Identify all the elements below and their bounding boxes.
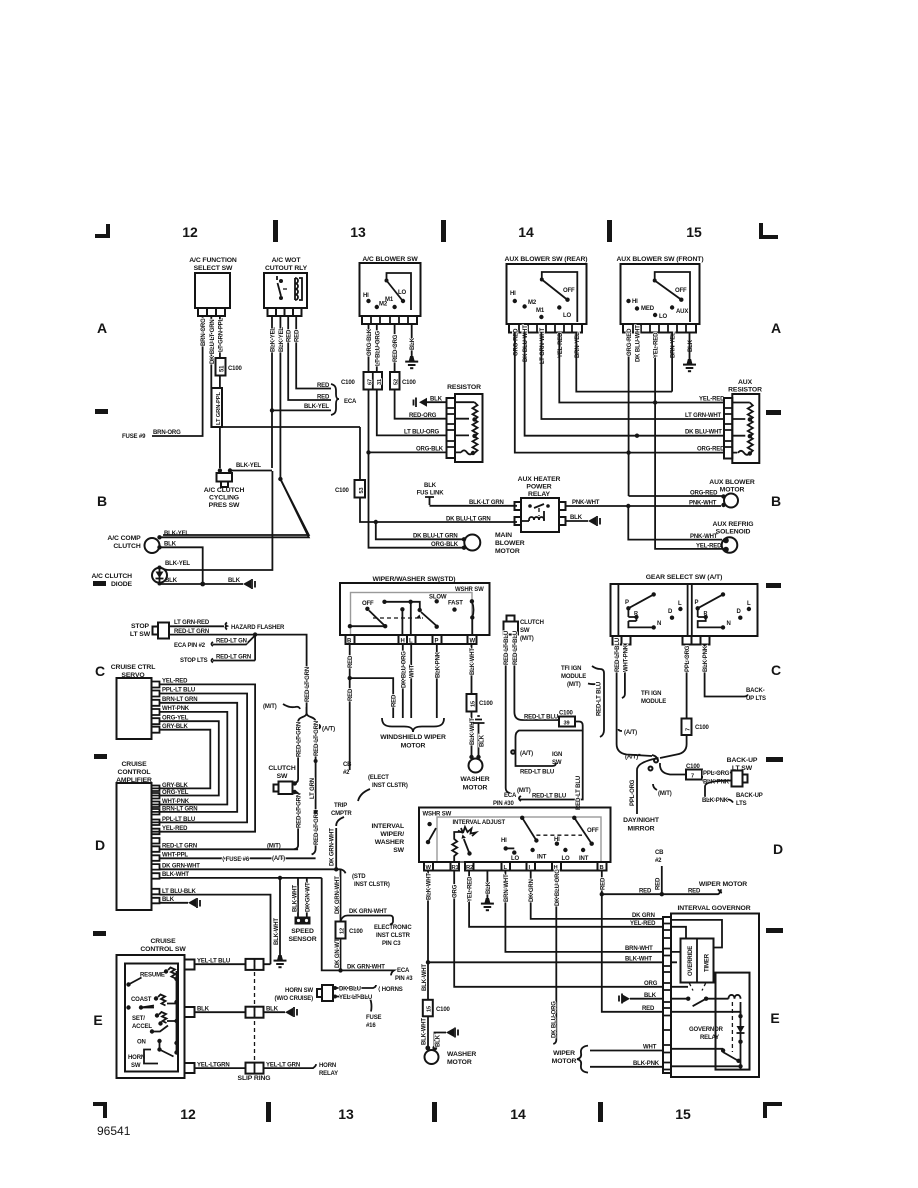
svg-text:LT GRN-WHT: LT GRN-WHT [685, 413, 722, 419]
svg-text:L: L [678, 601, 682, 607]
svg-text:MODULE: MODULE [561, 674, 586, 680]
ign switch label [552, 752, 562, 766]
svg-text:INTERVAL GOVERNOR: INTERVAL GOVERNOR [677, 905, 750, 912]
svg-text:RESISTOR: RESISTOR [447, 384, 481, 391]
svg-text:LO: LO [563, 313, 572, 319]
ground (arrow) bottom washer [435, 1028, 459, 1050]
svg-text:53: 53 [359, 488, 365, 494]
svg-text:96541: 96541 [97, 1124, 131, 1138]
svg-text:OFF: OFF [563, 288, 575, 294]
wire RED-LT BLU (ign sw / A/T branch) [511, 731, 583, 776]
svg-text:P: P [625, 600, 629, 606]
wire RED (WOT pin4 to ECA) [295, 316, 331, 389]
top tick 14/15 [607, 220, 612, 242]
svg-text:WIPER: WIPER [553, 1050, 575, 1057]
A/C function select switch [189, 257, 237, 316]
svg-text:RED: RED [392, 694, 398, 707]
connector C100 cavities 67/31 [341, 372, 383, 390]
wire ORG-BLK (blower HI to resistor/main blower) [367, 324, 373, 372]
wiper motor (bottom) brace [552, 1046, 588, 1073]
svg-text:BLK-WHT: BLK-WHT [162, 872, 189, 878]
svg-text:RELAY: RELAY [528, 491, 550, 498]
svg-text:HI: HI [501, 838, 507, 844]
svg-text:15: 15 [686, 224, 702, 240]
ground (bar style) blower switch [405, 356, 418, 369]
svg-text:YEL-LT BLU: YEL-LT BLU [197, 958, 230, 964]
wire RED-LT BLU (clutch sw left leg, M/T) [504, 631, 531, 794]
svg-text:RED: RED [600, 877, 606, 890]
svg-text:C100: C100 [402, 380, 417, 386]
svg-text:CB: CB [343, 762, 352, 768]
svg-text:BLK: BLK [165, 578, 178, 584]
svg-text:MOTOR: MOTOR [720, 487, 745, 494]
left margin dashes [95, 409, 108, 414]
svg-text:STOP LTS: STOP LTS [180, 658, 208, 664]
svg-text:CLUTCH: CLUTCH [520, 620, 544, 626]
cruise control amplifier [116, 761, 197, 910]
svg-text:YEL-LTGRN: YEL-LTGRN [197, 1062, 230, 1068]
svg-text:TFI IGN: TFI IGN [641, 691, 661, 697]
svg-text:BLK-PNK: BLK-PNK [435, 651, 441, 678]
wire YEL-RED (front sw to solenoid) [655, 333, 722, 550]
svg-text:ECA: ECA [344, 399, 357, 405]
wire BLK-WHT (amplifier bus) [160, 872, 322, 880]
svg-text:MODULE: MODULE [641, 699, 666, 705]
svg-text:ORG-BLK: ORG-BLK [416, 447, 444, 453]
svg-text:31: 31 [377, 379, 383, 385]
wire BLK-YEL (comp clutch from WOT) [160, 479, 309, 537]
svg-text:RED-ORG: RED-ORG [409, 413, 437, 419]
svg-text:DK BLU-ORG: DK BLU-ORG [551, 1001, 557, 1038]
svg-text:CLUTCH: CLUTCH [113, 543, 141, 550]
svg-text:(W/O CRUISE): (W/O CRUISE) [274, 996, 313, 1002]
svg-text:WHT: WHT [410, 664, 416, 678]
svg-text:PNK-WHT: PNK-WHT [572, 500, 600, 506]
svg-text:PPL-LT BLU: PPL-LT BLU [162, 817, 195, 823]
svg-text:(A/T): (A/T) [624, 730, 637, 736]
wire YEL-LT BLU (horn sw to fuse 16) [337, 995, 382, 1029]
svg-text:HI: HI [510, 291, 516, 297]
wire YEL-LT BLU (cruise sw to slip ring connector) [195, 958, 271, 970]
wire PNK-WHT (relay to aux blower motor / solenoid) [566, 500, 722, 508]
cruise ctrl servo [111, 664, 160, 739]
stop lamp switch [130, 623, 173, 639]
svg-text:IGN: IGN [552, 752, 562, 758]
svg-text:YEL-RED: YEL-RED [696, 544, 722, 550]
wire PNK-WHT (to solenoid) [628, 506, 722, 540]
slip ring dashed line [238, 958, 271, 1082]
svg-text:39: 39 [564, 721, 570, 727]
svg-text:CMPTR: CMPTR [331, 811, 352, 817]
svg-text:RED: RED [642, 1006, 655, 1012]
svg-text:A/C CLUTCH: A/C CLUTCH [91, 573, 132, 580]
svg-text:#16: #16 [366, 1023, 376, 1029]
svg-text:YEL-RED: YEL-RED [630, 921, 656, 927]
svg-text:H: H [401, 639, 405, 645]
ground (arrow style) + wire BLK to resistor [414, 397, 447, 408]
svg-text:E: E [93, 1012, 102, 1028]
svg-text:C100: C100 [349, 929, 364, 935]
wire LT BLU-ORG (C100-31 to resistor) [377, 390, 447, 436]
wire LT GRN-RED (to hazard flasher) [173, 620, 285, 631]
wire RED-LT GRN (stop sw to cruise circuit) [173, 629, 311, 713]
svg-text:CRUISE: CRUISE [121, 761, 147, 768]
svg-text:TIMER: TIMER [705, 953, 711, 972]
svg-text:(M/T): (M/T) [567, 682, 581, 688]
TFI ign module label (right) [641, 691, 666, 705]
svg-text:DK GRN-WHT: DK GRN-WHT [335, 876, 341, 914]
corner mark top-right [759, 223, 778, 239]
A/C blower switch [360, 256, 421, 324]
svg-text:B: B [771, 493, 781, 509]
svg-text:DK GN-WT: DK GN-WT [335, 938, 341, 968]
wire BLK (amplifier to ground arrow) [160, 897, 201, 908]
svg-text:DK GRN-WHT: DK GRN-WHT [330, 828, 336, 866]
svg-text:RED-LT GRN: RED-LT GRN [162, 844, 197, 850]
connector C100 cavity 15 (bottom washer) [423, 1000, 451, 1017]
svg-text:OFF: OFF [675, 288, 687, 294]
svg-text:7: 7 [685, 728, 691, 731]
wiper motor arrow (RED feed) [718, 889, 722, 893]
svg-text:GOVERNOR: GOVERNOR [689, 1027, 724, 1033]
svg-text:WHT-PPL: WHT-PPL [162, 853, 188, 859]
svg-text:13: 13 [350, 224, 366, 240]
bottom tick 13/14 [432, 1102, 437, 1122]
wire RED (wiper B to motor / CB2) [348, 644, 398, 770]
svg-text:B: B [600, 865, 604, 871]
svg-text:GRY-BLK: GRY-BLK [162, 724, 189, 730]
svg-text:RED-LT GRN: RED-LT GRN [297, 793, 303, 828]
svg-text:LT BLU-BLK: LT BLU-BLK [162, 889, 197, 895]
wire BLK-WHT (wiper W to washer motor) [470, 644, 476, 756]
wire BLK-PNK (back-up sw to back-up lts) [702, 781, 763, 808]
svg-text:BLK: BLK [436, 1034, 442, 1047]
top tick 12/13 [273, 220, 278, 242]
horn switch (w/o cruise) [274, 985, 337, 1002]
wire YEL-LT GRN (cruise sw to horn relay) [195, 1062, 317, 1073]
svg-text:15: 15 [675, 1106, 691, 1122]
fusible link BLK [417, 483, 517, 506]
svg-text:RED: RED [317, 383, 330, 389]
svg-text:RESUME: RESUME [140, 973, 165, 979]
svg-text:MOTOR: MOTOR [401, 743, 426, 750]
wire BLK-WHT (interval W to governor and washer C100) [422, 871, 663, 1000]
bottom tick 14/15 [598, 1102, 603, 1122]
svg-text:C100: C100 [479, 701, 494, 707]
svg-text:ECA: ECA [504, 793, 517, 799]
svg-text:P: P [695, 600, 699, 606]
wire RED (interval B to CB2 and wiper motor and governor) [600, 871, 721, 1013]
svg-text:HORN: HORN [128, 1055, 145, 1061]
ECA pin #30 label [493, 793, 521, 807]
svg-text:RED-LT BLU: RED-LT BLU [576, 776, 582, 810]
svg-text:WASHER: WASHER [447, 1051, 476, 1058]
svg-text:BLK: BLK [570, 515, 583, 521]
back-up light switch [702, 757, 758, 787]
svg-text:SW: SW [277, 773, 288, 780]
svg-text:BLK: BLK [162, 897, 175, 903]
connector C100 cavity 52 [390, 372, 417, 390]
svg-text:MOTOR: MOTOR [463, 785, 488, 792]
svg-text:RED: RED [348, 688, 354, 701]
svg-text:N: N [657, 621, 661, 627]
wire BLK (cruise sw to slip ring to ground) [195, 1006, 298, 1017]
connector C100 cavity 12 [336, 922, 364, 939]
svg-text:BLK: BLK [197, 1006, 210, 1012]
svg-text:P: P [435, 639, 439, 645]
svg-text:M1: M1 [385, 297, 394, 303]
svg-text:RED-LT BLU: RED-LT BLU [532, 794, 566, 800]
ground (bar style) washer motor [473, 716, 486, 756]
svg-text:PIN #30: PIN #30 [493, 801, 514, 807]
svg-text:E: E [770, 1010, 779, 1026]
wire DK BLU-LT GRN (drop to C100-53 and blower feed) [359, 427, 361, 480]
svg-text:RED: RED [348, 655, 354, 668]
ECA brace [331, 384, 357, 415]
svg-text:BLK-WHT: BLK-WHT [470, 718, 476, 745]
svg-text:GEAR SELECT SW (A/T): GEAR SELECT SW (A/T) [646, 574, 723, 581]
svg-text:SW: SW [393, 847, 404, 854]
svg-text:BLK: BLK [424, 483, 437, 489]
connector C100 cavity 39 [559, 711, 575, 727]
wire (bus to ECA pin 3) [322, 878, 394, 976]
svg-text:A/C BLOWER SW: A/C BLOWER SW [362, 256, 418, 263]
interval governor [663, 905, 759, 1077]
svg-text:WHT-PNK: WHT-PNK [623, 644, 629, 672]
svg-text:L: L [747, 601, 751, 607]
svg-text:BLK-WHT: BLK-WHT [625, 957, 652, 963]
svg-text:FUS LINK: FUS LINK [417, 491, 445, 497]
wire RED-LT GRN (amplifier to M/T clutch branch) [160, 844, 299, 850]
svg-text:ORG-BLK: ORG-BLK [367, 328, 373, 356]
svg-text:C100: C100 [335, 488, 350, 494]
svg-text:LT GRN-PPL: LT GRN-PPL [216, 392, 222, 425]
wire DK BLU-WHT (rear/front to aux resistor) [525, 333, 724, 438]
svg-text:WHT-PNK: WHT-PNK [162, 706, 190, 712]
svg-text:POWER: POWER [526, 484, 551, 491]
speed sensor [288, 878, 316, 943]
A/C comp clutch [107, 535, 161, 553]
rotated wire labels aux front [627, 325, 694, 362]
svg-text:(A/T)⌜: (A/T)⌜ [625, 754, 641, 761]
svg-text:SPEED: SPEED [291, 928, 314, 935]
svg-text:WIPER MOTOR: WIPER MOTOR [699, 881, 747, 888]
wire RED-ORG (C100-52 to resistor) [395, 390, 447, 420]
wire RED-LT BLU (clutch sw right leg to C100-39) [513, 631, 559, 721]
svg-text:RED-LT BLU: RED-LT BLU [504, 631, 510, 665]
svg-text:BLK-YEL: BLK-YEL [271, 327, 277, 352]
svg-text:INT: INT [537, 855, 547, 861]
wire WHT (wiper L) [410, 644, 416, 718]
svg-text:AUX HEATER: AUX HEATER [518, 476, 561, 483]
svg-text:MIRROR: MIRROR [628, 826, 655, 833]
svg-text:(M/T): (M/T) [520, 636, 534, 642]
svg-text:FAST: FAST [448, 601, 463, 607]
svg-text:AUX REFRIG: AUX REFRIG [713, 521, 754, 528]
svg-text:LTS: LTS [736, 801, 747, 807]
svg-text:CLUTCH: CLUTCH [268, 765, 296, 772]
svg-text:WHT: WHT [643, 1045, 657, 1051]
svg-text:SW: SW [131, 1063, 141, 1069]
svg-text:BLK-WHT: BLK-WHT [470, 648, 476, 675]
wire ORG (interval R1 to governor) [453, 871, 663, 988]
svg-text:DK GRN-WHT: DK GRN-WHT [162, 864, 200, 870]
svg-text:AUX BLOWER: AUX BLOWER [709, 479, 755, 486]
svg-text:WIPER/WASHER SW(STD): WIPER/WASHER SW(STD) [373, 576, 456, 583]
wire ORG-RED (front sw to aux blower motor) [629, 333, 722, 497]
svg-text:WINDSHIELD WIPER: WINDSHIELD WIPER [380, 734, 446, 741]
svg-text:ORG: ORG [644, 981, 658, 987]
day/night mirror [623, 817, 660, 833]
svg-text:BLK-WHT: BLK-WHT [422, 1018, 428, 1045]
svg-text:R1: R1 [452, 865, 460, 871]
svg-text:DK BLU-LT GRN: DK BLU-LT GRN [446, 517, 491, 523]
wire BLK (blower to ground) [410, 324, 416, 357]
svg-text:ORG-RED: ORG-RED [627, 328, 633, 356]
top tick 13/14 [441, 220, 446, 242]
svg-text:LT GRN-PPL: LT GRN-PPL [219, 317, 225, 352]
corner mark bottom-left [93, 1102, 107, 1118]
svg-text:C100: C100 [228, 366, 243, 372]
svg-text:LT GRN-RED: LT GRN-RED [174, 620, 210, 626]
wire DK GRN-WHT (riser through C100-12 to ECA pin3) [335, 869, 343, 972]
svg-text:STOP: STOP [131, 623, 150, 630]
wire DK GRN (interval I to governor) [529, 871, 663, 920]
svg-text:DIODE: DIODE [111, 581, 133, 588]
governor internal wiring [671, 920, 750, 1070]
svg-text:(A/T): (A/T) [272, 856, 285, 862]
svg-text:ORG-RED: ORG-RED [690, 491, 718, 497]
svg-text:SET/: SET/ [132, 1016, 145, 1022]
svg-text:RED: RED [656, 877, 662, 890]
svg-text:LT GRN: LT GRN [310, 778, 316, 799]
wire BLK-PNK (wiper P) [435, 644, 441, 718]
svg-text:LT BLU-ORG: LT BLU-ORG [404, 430, 440, 436]
svg-text:N: N [727, 621, 731, 627]
svg-text:RED-LT GRN: RED-LT GRN [216, 655, 251, 661]
svg-text:RED-LT BLU: RED-LT BLU [597, 682, 603, 716]
clutch switch (cruise, M/T) [268, 765, 298, 794]
svg-text:DK GN-WT: DK GN-WT [306, 882, 312, 912]
svg-text:OFF: OFF [362, 601, 374, 607]
svg-text:HI: HI [363, 293, 369, 299]
svg-text:A: A [97, 320, 107, 336]
svg-text:R: R [634, 611, 638, 617]
svg-text:SW: SW [520, 628, 530, 634]
svg-text:67: 67 [368, 379, 374, 385]
servo loop wires to amplifier [152, 679, 255, 832]
svg-text:BLK-WHT: BLK-WHT [274, 918, 280, 945]
svg-text:R2: R2 [466, 865, 473, 871]
svg-text:SENSOR: SENSOR [288, 936, 316, 943]
svg-text:BLK: BLK [644, 993, 657, 999]
svg-text:PPL-LT BLU: PPL-LT BLU [162, 688, 195, 694]
wire PPL-ORG (gear select through C100-7) [660, 645, 691, 759]
svg-text:ORG-YEL: ORG-YEL [162, 790, 189, 796]
svg-text:BRN-WHT: BRN-WHT [625, 946, 653, 952]
connector C100 cavity 51 [216, 358, 243, 376]
svg-text:BLK: BLK [410, 337, 416, 350]
svg-text:LO: LO [398, 290, 407, 296]
svg-text:YEL-RED: YEL-RED [468, 876, 474, 902]
svg-text:15: 15 [427, 1006, 433, 1012]
svg-text:C100: C100 [341, 380, 356, 386]
svg-text:YEL-RED: YEL-RED [654, 332, 660, 358]
svg-text:A/C COMP: A/C COMP [107, 535, 141, 542]
svg-text:WASHER: WASHER [375, 839, 404, 846]
wire BLK-PNK (wiper motor to governor relay) [590, 1061, 663, 1067]
svg-text:CONTROL SW: CONTROL SW [140, 946, 186, 953]
corner mark bottom-right [763, 1102, 782, 1118]
svg-text:12: 12 [182, 224, 198, 240]
svg-text:LT BLU-ORG: LT BLU-ORG [375, 330, 381, 366]
svg-text:RED-LT GRN: RED-LT GRN [174, 629, 209, 635]
svg-text:DK GRN: DK GRN [632, 913, 655, 919]
svg-text:DK BLU-ORG: DK BLU-ORG [555, 869, 561, 906]
svg-text:OVERRIDE: OVERRIDE [688, 946, 694, 976]
svg-text:RED-LT GRN: RED-LT GRN [297, 722, 303, 757]
svg-text:TRIP: TRIP [334, 803, 347, 809]
wire ORG-RED (rear/front to aux resistor) [515, 333, 725, 455]
svg-text:M1: M1 [536, 308, 545, 314]
svg-text:CB: CB [655, 850, 664, 856]
svg-text:PIN #3: PIN #3 [395, 976, 413, 982]
svg-text:ELECTRONIC: ELECTRONIC [374, 925, 412, 931]
svg-text:ORG-RED: ORG-RED [697, 447, 725, 453]
svg-text:BLK-WHT: BLK-WHT [422, 964, 428, 991]
gear select switch (A/T) [611, 574, 758, 645]
svg-text:(M/T): (M/T) [267, 844, 281, 850]
aux blower switch (rear) [505, 256, 588, 333]
rotated wire labels aux rear [513, 325, 581, 364]
svg-text:DAY/NIGHT: DAY/NIGHT [623, 817, 660, 824]
wire BRN-ORG (fuse #9 feed) [152, 316, 207, 436]
connector C100 cavity 7 [682, 719, 710, 736]
svg-text:A/C WOT: A/C WOT [272, 257, 302, 264]
svg-text:YEL-RED: YEL-RED [162, 826, 188, 832]
svg-text:RED-LT GRN: RED-LT GRN [305, 667, 311, 702]
svg-text:RED-ORG: RED-ORG [393, 334, 399, 362]
svg-text:PIN C3: PIN C3 [382, 941, 401, 947]
svg-text:BLK: BLK [266, 1006, 279, 1012]
svg-text:DK BLU-WHT: DK BLU-WHT [635, 325, 641, 362]
wire LT BLU-BLK (amplifier to slip ring connector) [160, 889, 271, 964]
wire YEL-RED (rear/front to aux resistor) [559, 333, 725, 405]
svg-text:ORG: ORG [453, 884, 459, 898]
svg-text:AUX: AUX [676, 309, 688, 315]
stop lts tap [180, 635, 255, 664]
svg-text:HI: HI [632, 299, 638, 305]
svg-text:BRN-LT GRN: BRN-LT GRN [162, 806, 197, 812]
wire DK GRN-WHT branch to electronic inst clstr [341, 909, 394, 925]
clutch switch (wiper, M/T) [504, 616, 544, 643]
svg-text:ON: ON [137, 1040, 146, 1046]
wire RED-LT BLU (gear select to A/T merge) [615, 638, 652, 756]
wire LT BLU-ORG (blower M2) [375, 324, 381, 372]
svg-text:BLK: BLK [228, 578, 241, 584]
wire DK BLU-LT GRN (C100-53 to heater relay and main blower) [360, 498, 517, 540]
svg-text:SELECT SW: SELECT SW [194, 265, 233, 272]
svg-text:C: C [771, 662, 781, 678]
electronic inst clstr pin C3 label [374, 925, 412, 947]
svg-text:MAIN: MAIN [495, 532, 512, 539]
svg-text:ORG-YEL: ORG-YEL [162, 715, 189, 721]
main blower motor [462, 532, 525, 555]
svg-text:51: 51 [220, 365, 226, 372]
svg-text:SLIP RING: SLIP RING [238, 1075, 271, 1082]
svg-text:INST CLSTR): INST CLSTR) [372, 783, 408, 789]
interval wiper/washer switch [371, 808, 610, 872]
